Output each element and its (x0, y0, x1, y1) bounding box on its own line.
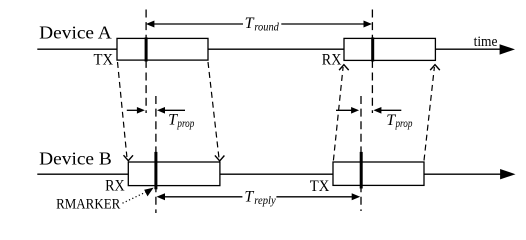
component: T_reply measurement arrow (157, 193, 361, 200)
wire: vertical dashed line at Device B RX marker (x=155.9) (155, 96, 157, 213)
svg-text:RX: RX (105, 177, 125, 194)
wire: propagation dashed line TX A left edge to RX B left edge (118, 62, 134, 161)
svg-text:prop: prop (177, 118, 195, 130)
svg-text:TX: TX (310, 178, 330, 195)
node: TX RMARKER bar on Device A (145, 37, 148, 61)
svg-text:T: T (244, 189, 254, 206)
node: Device B time axis arrowhead (500, 169, 515, 179)
component: Device A RX frame rectangle (344, 38, 435, 60)
wire: Device A timeline (37, 48, 502, 50)
component: T_prop left measurement arrows (127, 107, 185, 114)
node: TX RMARKER bar on Device B (360, 152, 363, 189)
svg-text:round: round (254, 22, 279, 34)
svg-text:reply: reply (254, 195, 276, 207)
component: T_round measurement arrow (146, 21, 372, 28)
node: T_prop right label (386, 112, 412, 130)
node: T_prop left label (168, 112, 194, 130)
node: RX RMARKER bar on Device B (154, 152, 157, 189)
wire: vertical dashed line at Device A RX marker (x=372.4) (371, 10, 373, 114)
wire: propagation dashed line TX B right edge to RX A right edge (424, 65, 440, 161)
svg-text:Device B: Device B (39, 148, 112, 168)
wire: vertical dashed line at Device B TX marker (x=361) (360, 96, 362, 211)
component: Device B RX frame rectangle (128, 162, 220, 186)
svg-text:T: T (245, 15, 255, 32)
svg-text:Device A: Device A (39, 22, 112, 42)
wire: RMARKER dotted pointer arrow (123, 188, 154, 204)
node: RX RMARKER bar on Device A (371, 37, 374, 61)
wire: propagation dashed line TX B left edge to RX A left edge (333, 65, 348, 161)
wire: propagation dashed line TX A right edge to RX B right edge (208, 62, 224, 161)
svg-text:prop: prop (395, 118, 413, 130)
node: T_round label (245, 15, 280, 33)
svg-text:TX: TX (94, 52, 114, 69)
wire: vertical dashed line at Device A TX marker (x=146) (145, 10, 147, 114)
component: T_prop right measurement arrows (336, 107, 401, 114)
svg-text:RX: RX (322, 52, 342, 69)
svg-text:RMARKER: RMARKER (56, 197, 120, 213)
wire: Device B timeline (37, 173, 502, 175)
node: Device A time axis arrowhead (500, 44, 515, 54)
svg-text:time: time (474, 34, 498, 50)
component: Device B TX frame rectangle (333, 162, 424, 185)
node: T_reply label (244, 189, 276, 207)
component: Device A TX frame rectangle (117, 38, 208, 60)
